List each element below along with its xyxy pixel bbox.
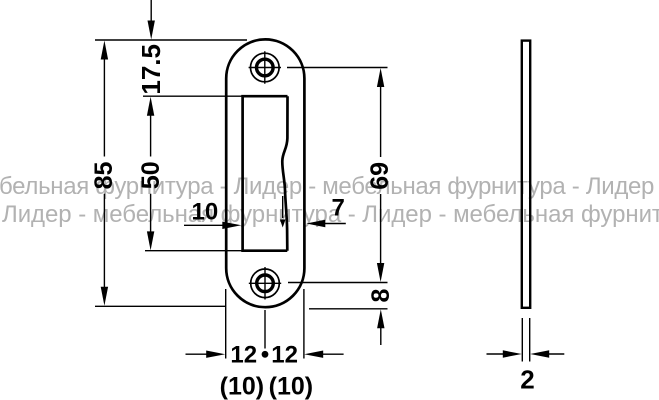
extension line cutout bottom: [145, 250, 242, 252]
arrowhead 2 left (right): [503, 350, 522, 357]
svg-text:10: 10: [192, 199, 219, 226]
bottom screw hole outer circle: [251, 269, 280, 298]
latch cutout wavy right edge: [282, 96, 287, 251]
top screw hole crosshair: [249, 51, 281, 84]
svg-text:12: 12: [271, 342, 298, 369]
dimension 69 line: [380, 85, 382, 265]
plate outline (front view stadium shape): [226, 39, 304, 307]
svg-text:(10): (10): [269, 373, 313, 400]
dimension 2 left tail: [487, 353, 505, 355]
extension line side view right: [529, 318, 531, 362]
svg-text:85: 85: [90, 162, 118, 190]
arrowhead 85 bottom (down): [101, 287, 108, 306]
extension line bottom width left: [225, 289, 227, 359]
dimension 12-12 right tail: [322, 353, 344, 355]
arrowhead 12 left (right): [206, 351, 225, 358]
latch cutout left/top/bottom edges: [243, 96, 288, 251]
arrowhead 69 top (up): [377, 68, 384, 87]
extension line bottom width center: [264, 310, 266, 349]
svg-text:12: 12: [230, 342, 257, 369]
top screw hole inner circle: [257, 59, 274, 76]
leader 7 line: [324, 223, 346, 225]
watermark line 1: [0, 175, 654, 199]
svg-text:2: 2: [520, 364, 534, 394]
arrowhead leader 10 (right): [222, 222, 241, 229]
arrowhead 8 bottom (up): [377, 309, 384, 328]
arrowhead 12 right (left): [304, 351, 323, 358]
dimension 8 lower tail: [380, 326, 382, 345]
svg-text:50: 50: [137, 161, 165, 189]
dimension 12-12 left tail: [186, 353, 208, 355]
dimension 50 line: [150, 113, 152, 235]
arrowhead 17.5/50 shared (up): [147, 97, 154, 116]
dimension 85 line: [103, 58, 105, 288]
dimension 17.5 upper line: [150, 0, 152, 22]
arrowhead 69/8 shared (down): [377, 263, 384, 282]
arrowhead 50 bottom (down): [147, 231, 154, 250]
svg-text:17.5: 17.5: [136, 44, 166, 95]
extension line bottom width right: [303, 289, 305, 359]
bottom screw hole inner circle: [257, 275, 274, 292]
leader 10 line: [184, 224, 225, 226]
bottom screw hole crosshair: [249, 267, 281, 300]
svg-text:7: 7: [332, 195, 345, 222]
arrowhead leader 7 (left): [306, 220, 325, 227]
svg-text:(10): (10): [220, 373, 264, 400]
extension line plate bottom left: [95, 305, 226, 307]
adjustment arrow shaft: [282, 196, 284, 218]
extension line bottom hole center: [288, 282, 388, 284]
extension line cutout top: [143, 95, 242, 97]
side view plate (2mm thick): [522, 41, 530, 308]
top screw hole outer circle: [250, 53, 279, 82]
svg-text:69: 69: [366, 162, 394, 190]
dimension 2 right tail: [548, 353, 564, 355]
adjustment arrowhead (down): [280, 220, 286, 228]
extension line top hole center: [287, 67, 388, 69]
svg-text:8: 8: [367, 288, 395, 302]
extension line plate top: [95, 39, 247, 41]
dot between 12 and 12: [262, 351, 269, 358]
extension line plate bottom right: [309, 308, 388, 310]
extension line side view left: [521, 318, 523, 362]
arrowhead 2 right (left): [530, 350, 549, 357]
arrowhead 85 top (up): [101, 41, 108, 60]
watermark line 2: [2, 203, 659, 227]
arrowhead 17.5 top (down): [148, 21, 155, 40]
